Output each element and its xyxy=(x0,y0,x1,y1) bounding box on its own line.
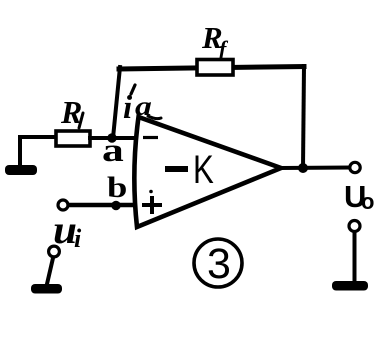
label Rf xyxy=(201,20,229,61)
terminal ui top xyxy=(58,200,68,210)
wire feedback right vertical xyxy=(303,66,304,168)
label ui xyxy=(53,208,82,253)
wire R1 left + ground stem xyxy=(20,137,56,166)
resistor R1 xyxy=(56,131,90,146)
terminal Uo xyxy=(350,162,360,172)
label i'a xyxy=(123,85,161,126)
svg-text:K: K xyxy=(193,147,214,192)
svg-text:3: 3 xyxy=(207,240,231,288)
wire R1 to op-amp xyxy=(90,136,134,140)
op-amp U1 xyxy=(134,117,281,227)
circled figure number 3 xyxy=(194,239,242,288)
plus input mark xyxy=(142,190,162,214)
svg-text:o: o xyxy=(361,189,374,214)
svg-text:i: i xyxy=(74,224,82,253)
junction node b xyxy=(111,201,120,210)
label Uo xyxy=(344,179,374,214)
terminal ui bottom xyxy=(49,246,60,257)
wire feedback top xyxy=(119,67,304,70)
label -K gain xyxy=(165,147,214,192)
junction output node xyxy=(298,163,308,173)
svg-text:b: b xyxy=(107,171,127,204)
ground left xyxy=(5,165,37,175)
wire to ground right xyxy=(353,232,357,282)
resistor Rf xyxy=(197,60,233,76)
label R1 xyxy=(60,94,83,130)
svg-text:a: a xyxy=(102,133,124,169)
wire b input xyxy=(69,203,133,208)
minus input mark xyxy=(143,136,158,139)
wire output xyxy=(281,166,349,171)
wire feedback left vertical xyxy=(113,67,120,138)
ground bottom-left xyxy=(31,284,62,294)
wire ui to ground xyxy=(47,258,53,284)
ground bottom-right xyxy=(332,281,368,291)
junction node a xyxy=(107,133,116,142)
terminal output bottom xyxy=(349,221,360,232)
